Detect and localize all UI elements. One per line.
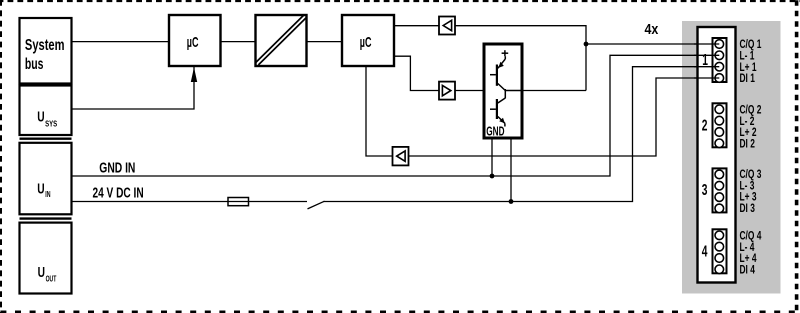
svg-text:DI 4: DI 4 bbox=[740, 264, 756, 277]
connector block 1 bbox=[713, 38, 727, 82]
pin labels group 4 bbox=[740, 230, 762, 277]
wire O1 to node x586 bbox=[455, 26, 586, 91]
wire uC2 bottom to optocoupler O3 bbox=[366, 66, 393, 156]
wire output stage to node x586 bbox=[522, 90, 586, 92]
fuse F1 bbox=[228, 198, 249, 206]
svg-text:24 V DC IN: 24 V DC IN bbox=[93, 184, 144, 202]
wire GND IN to L- 1 bbox=[72, 55, 720, 176]
svg-text:SYS: SYS bbox=[45, 119, 57, 129]
svg-text:U: U bbox=[38, 263, 45, 281]
module body white box bbox=[698, 27, 736, 283]
pin labels group 1 bbox=[740, 39, 762, 86]
svg-text:System: System bbox=[25, 36, 65, 53]
wire uC2 pin to optocoupler O1 bbox=[394, 25, 439, 27]
svg-text:U: U bbox=[37, 179, 44, 197]
pin labels group 3 bbox=[740, 169, 762, 216]
wire stubs into block 1 pins bbox=[694, 44, 719, 78]
svg-text:OUT: OUT bbox=[46, 276, 57, 284]
isolation line 1 bbox=[20, 137, 72, 139]
output node wire inside output stage bbox=[505, 90, 522, 92]
pin labels group 2 bbox=[740, 104, 762, 151]
box UOUT bbox=[20, 223, 72, 294]
svg-text:4: 4 bbox=[702, 242, 708, 260]
optocoupler O1 (feedback, left-pointing) bbox=[439, 17, 455, 35]
wire node to C/Q 1 bbox=[586, 43, 719, 45]
svg-text:3: 3 bbox=[702, 181, 708, 199]
svg-text:4x: 4x bbox=[645, 21, 659, 37]
wire USYS to uC1 with arrow bbox=[72, 67, 195, 109]
svg-text:DI 2: DI 2 bbox=[740, 138, 756, 151]
connector block 3 bbox=[713, 168, 727, 212]
svg-text:DI 1: DI 1 bbox=[740, 73, 756, 86]
svg-text:2: 2 bbox=[702, 116, 708, 134]
optocoupler O3 (DI input, left-pointing) bbox=[393, 147, 409, 166]
gray terminal panel bbox=[682, 21, 781, 294]
output stage box bbox=[484, 44, 522, 138]
label UOUT bbox=[38, 263, 57, 284]
wire O2 to output stage bbox=[455, 90, 484, 92]
plus symbol bbox=[502, 50, 509, 56]
svg-text:µC: µC bbox=[187, 33, 199, 50]
junction node CQ bbox=[584, 42, 589, 47]
box System bus bbox=[20, 18, 72, 84]
transistor Q2 (low side NPN) bbox=[490, 89, 505, 127]
svg-text:U: U bbox=[37, 107, 44, 125]
wire isolator to uC2 bbox=[307, 41, 343, 43]
galvanic isolator (DC/DC) bbox=[256, 15, 307, 66]
svg-text:GND: GND bbox=[486, 125, 504, 139]
switch S1 blade bbox=[308, 201, 325, 209]
svg-text:1: 1 bbox=[702, 51, 708, 69]
connector block 4 bbox=[713, 229, 727, 273]
svg-text:IN: IN bbox=[45, 191, 50, 199]
box USYS bbox=[20, 86, 72, 136]
label System bus bbox=[25, 36, 65, 72]
transistor Q1 (high side PNP) bbox=[490, 56, 505, 90]
label UIN bbox=[37, 179, 50, 199]
optocoupler O2 (drive, right-pointing) bbox=[439, 82, 455, 100]
junction 24V bbox=[509, 199, 514, 204]
svg-text:µC: µC bbox=[360, 33, 372, 50]
wire uC1 to isolator bbox=[221, 41, 256, 43]
junction GND bbox=[490, 174, 495, 179]
connector block 2 bbox=[713, 103, 727, 147]
wire uC2 pin2 to optocoupler O2 bbox=[394, 56, 439, 90]
microcontroller U2 (right uC) bbox=[342, 15, 394, 66]
label USYS bbox=[37, 107, 57, 129]
wire system bus to uC1 bbox=[72, 41, 170, 43]
box UIN bbox=[20, 143, 72, 215]
output stage supply pin to 24V rail bbox=[510, 139, 512, 202]
wire 24V segment to fuse/switch bbox=[72, 201, 308, 203]
arrowhead into uC1 bbox=[191, 67, 197, 82]
output stage GND pin to GND rail bbox=[491, 139, 493, 177]
svg-text:bus: bus bbox=[25, 55, 44, 73]
microcontroller U1 (left uC) bbox=[169, 15, 221, 66]
svg-text:DI 3: DI 3 bbox=[740, 203, 756, 216]
wire 24V after switch to L+ 1 bbox=[324, 67, 720, 202]
isolation line 2 bbox=[20, 217, 72, 219]
wire O3 to DI 1 bbox=[409, 78, 720, 156]
svg-text:GND IN: GND IN bbox=[99, 159, 135, 176]
